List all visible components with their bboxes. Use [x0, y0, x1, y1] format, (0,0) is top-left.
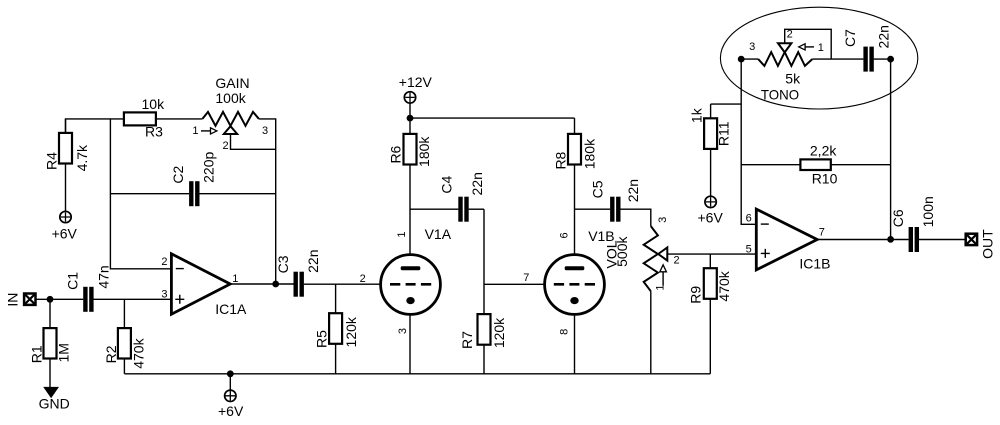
wire IN terminal to C1	[36, 298, 83, 300]
resistor R2	[118, 299, 131, 374]
capacitor C7	[863, 47, 873, 72]
svg-text:180k: 180k	[416, 136, 432, 167]
svg-text:+12V: +12V	[399, 74, 433, 90]
svg-text:R5: R5	[314, 330, 330, 348]
wire R3 right to GAIN pot	[156, 118, 203, 120]
svg-text:OUT: OUT	[980, 229, 996, 259]
capacitor C6	[909, 227, 919, 252]
resistor R11	[704, 104, 717, 196]
wire rail to R10 left	[741, 164, 800, 166]
svg-text:C4: C4	[439, 176, 455, 194]
wire C4 to R7 column	[469, 208, 484, 210]
potentiometer GAIN zigzag	[203, 112, 259, 126]
svg-text:GND: GND	[39, 396, 70, 412]
VOL pin 1 arrow	[660, 265, 667, 286]
VOL wiper triangle pin 2	[658, 247, 667, 260]
svg-text:V1A: V1A	[425, 226, 452, 242]
resistor R9	[704, 254, 717, 374]
wire TONO wiper terminal 2 loop	[785, 29, 832, 59]
capacitor C3	[294, 272, 304, 297]
svg-text:3: 3	[397, 328, 409, 334]
resistor R5	[329, 284, 342, 374]
svg-text:R10: R10	[812, 171, 838, 187]
svg-text:R8: R8	[553, 151, 569, 169]
svg-text:1: 1	[655, 285, 667, 291]
wire feedback rail to IC1A pin 2	[110, 119, 171, 269]
supply +6V bottom	[225, 390, 236, 401]
wire VOL pot bottom to bottom rail	[650, 291, 652, 374]
wire V1B anode node to C5	[575, 208, 611, 210]
svg-text:1: 1	[396, 232, 408, 238]
resistor R10	[800, 159, 830, 170]
wire C1 to IC1A pin 3	[93, 298, 171, 300]
wire VOL wiper to IC1B pin 5	[667, 253, 756, 255]
svg-text:47n: 47n	[96, 265, 112, 288]
wire R7 column vertical	[483, 209, 485, 374]
wire C2 right to rail	[199, 193, 275, 195]
svg-text:+6V: +6V	[52, 225, 78, 241]
svg-text:5k: 5k	[785, 70, 801, 86]
triode V1A	[381, 255, 441, 315]
svg-text:GAIN: GAIN	[215, 75, 249, 91]
svg-text:1k: 1k	[689, 107, 705, 123]
svg-text:100k: 100k	[215, 90, 246, 106]
svg-text:2: 2	[223, 140, 229, 152]
wire C3 to V1A grid pin 2	[304, 283, 381, 285]
junction input node	[47, 296, 54, 303]
svg-text:22n: 22n	[875, 25, 891, 48]
svg-text:470k: 470k	[716, 270, 732, 301]
junction TONO left node	[738, 56, 745, 63]
svg-text:C7: C7	[842, 29, 858, 47]
wire V1B cathode pin 8 to bottom rail	[574, 314, 576, 373]
junction +12V node	[407, 115, 414, 122]
svg-text:1: 1	[192, 125, 198, 137]
svg-text:180k: 180k	[581, 138, 597, 169]
supply +6V left	[60, 211, 71, 222]
wire +12V rail to R8	[410, 117, 575, 119]
svg-text:+6V: +6V	[218, 403, 244, 419]
svg-text:R11: R11	[716, 121, 732, 146]
svg-text:R1: R1	[28, 345, 44, 363]
svg-text:120k: 120k	[491, 317, 507, 348]
svg-text:2: 2	[674, 255, 680, 267]
wire GAIN terminal 3 rail down to IC1A output node	[259, 119, 276, 284]
svg-text:470k: 470k	[131, 337, 147, 368]
svg-text:3: 3	[262, 125, 268, 137]
op-amp IC1A	[171, 254, 230, 314]
wire V1B grid pin 7	[484, 283, 544, 285]
svg-text:1: 1	[818, 42, 824, 54]
wire anode node V1A to C4	[410, 208, 458, 210]
wire IC1A output to C3	[230, 283, 293, 285]
GAIN pin 1 arrow	[201, 128, 217, 134]
wire bottom supply rail	[124, 373, 710, 375]
svg-text:IC1A: IC1A	[215, 301, 247, 317]
capacitor C5	[610, 197, 620, 222]
wire +12V symbol lead	[409, 103, 411, 118]
svg-text:2,2k: 2,2k	[810, 143, 837, 159]
resistor R4	[59, 119, 72, 211]
svg-text:1M: 1M	[55, 343, 71, 362]
capacitor C1	[83, 287, 93, 312]
svg-text:500k: 500k	[614, 236, 630, 267]
svg-text:C5: C5	[590, 180, 606, 198]
svg-text:3: 3	[749, 41, 755, 53]
junction bottom rail +6V node	[227, 370, 234, 377]
wire TONO node 3 to pot	[741, 58, 758, 60]
svg-text:6: 6	[559, 232, 571, 238]
svg-text:C1: C1	[64, 272, 80, 290]
svg-text:22n: 22n	[625, 179, 641, 202]
wire GAIN wiper to rail	[231, 134, 276, 150]
TONO wiper triangle pin 2	[778, 43, 791, 52]
TONO pin 1 arrow	[799, 44, 814, 50]
svg-text:22n: 22n	[305, 250, 321, 273]
resistor R8	[568, 118, 581, 255]
wire R11 top connector	[711, 103, 742, 105]
wire V1A cathode pin 3 to bottom rail	[409, 314, 411, 373]
resistor R7	[478, 314, 491, 345]
supply +6V middle	[705, 196, 716, 207]
capacitor C4	[458, 197, 468, 222]
wire C7 to right node	[874, 58, 891, 60]
svg-text:100n: 100n	[920, 196, 936, 227]
potentiometer TONO 5k zigzag	[758, 52, 812, 66]
GAIN wiper triangle pin 2	[224, 126, 237, 134]
svg-text:R4: R4	[44, 152, 60, 170]
wire C5 to VOL pot top	[620, 209, 651, 226]
svg-text:C3: C3	[275, 255, 291, 273]
resistor R6	[404, 118, 417, 255]
wire TONO pot to C7	[812, 58, 863, 60]
svg-text:4.7k: 4.7k	[74, 144, 90, 171]
wire IC1B output to C6	[817, 239, 908, 241]
svg-text:220p: 220p	[201, 152, 217, 183]
svg-text:8: 8	[559, 329, 571, 335]
terminal OUT	[966, 234, 977, 245]
wire R4 top to R3 left	[66, 119, 124, 133]
wire TONO right rail down to output node	[890, 59, 892, 239]
wire rail to C2 left	[110, 193, 189, 195]
svg-text:5: 5	[746, 243, 752, 255]
svg-text:C2: C2	[170, 166, 186, 184]
wire TONO left rail to IC1B pin 6	[741, 59, 756, 224]
svg-text:3: 3	[657, 217, 669, 223]
op-amp IC1B	[756, 209, 817, 270]
supply +12V	[404, 92, 415, 103]
svg-text:R2: R2	[103, 345, 119, 363]
TONO highlight ellipse	[720, 7, 917, 109]
wire C6 to OUT terminal	[919, 239, 965, 241]
svg-text:2: 2	[161, 256, 167, 268]
svg-text:R7: R7	[459, 331, 475, 349]
svg-text:1: 1	[232, 273, 238, 285]
capacitor C2	[189, 181, 199, 206]
svg-text:6: 6	[746, 212, 752, 224]
svg-text:7: 7	[819, 226, 825, 238]
svg-text:R6: R6	[388, 145, 404, 163]
svg-text:7: 7	[523, 272, 529, 284]
junction TONO right node	[887, 56, 894, 63]
svg-text:120k: 120k	[343, 316, 359, 347]
terminal IN	[24, 294, 35, 305]
svg-text:22n: 22n	[469, 172, 485, 195]
svg-text:TONO: TONO	[761, 87, 799, 103]
svg-text:IC1B: IC1B	[799, 256, 830, 272]
svg-text:3: 3	[161, 289, 167, 301]
svg-text:10k: 10k	[142, 96, 166, 112]
wire bottom rail to +6V symbol	[229, 374, 231, 390]
svg-text:R3: R3	[145, 124, 163, 140]
svg-text:C6: C6	[890, 209, 906, 227]
svg-text:R9: R9	[688, 286, 704, 304]
triode V1B	[545, 255, 605, 315]
svg-text:IN: IN	[5, 293, 21, 307]
svg-text:2: 2	[360, 273, 366, 285]
ground GND	[43, 387, 59, 398]
wire R10 right to output rail	[831, 164, 891, 166]
svg-text:2: 2	[787, 28, 793, 40]
potentiometer VOL zigzag	[644, 226, 658, 291]
resistor R1	[44, 299, 57, 387]
resistor R3	[124, 112, 156, 125]
junction output node	[887, 236, 894, 243]
svg-text:+6V: +6V	[698, 210, 724, 226]
junction IC1A output node	[272, 281, 279, 288]
